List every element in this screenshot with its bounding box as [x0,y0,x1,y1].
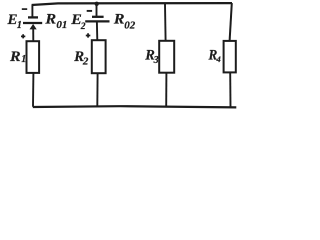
svg-text:2: 2 [80,22,86,32]
svg-text:02: 02 [124,20,136,32]
svg-text:3: 3 [153,55,159,66]
svg-text:4: 4 [216,54,221,64]
svg-text:1: 1 [21,54,26,65]
svg-text:R: R [44,12,56,28]
svg-text:R: R [113,12,125,28]
svg-text:R: R [9,49,21,65]
svg-text:2: 2 [82,55,89,67]
svg-text:01: 01 [56,19,67,31]
svg-text:1: 1 [17,20,22,31]
